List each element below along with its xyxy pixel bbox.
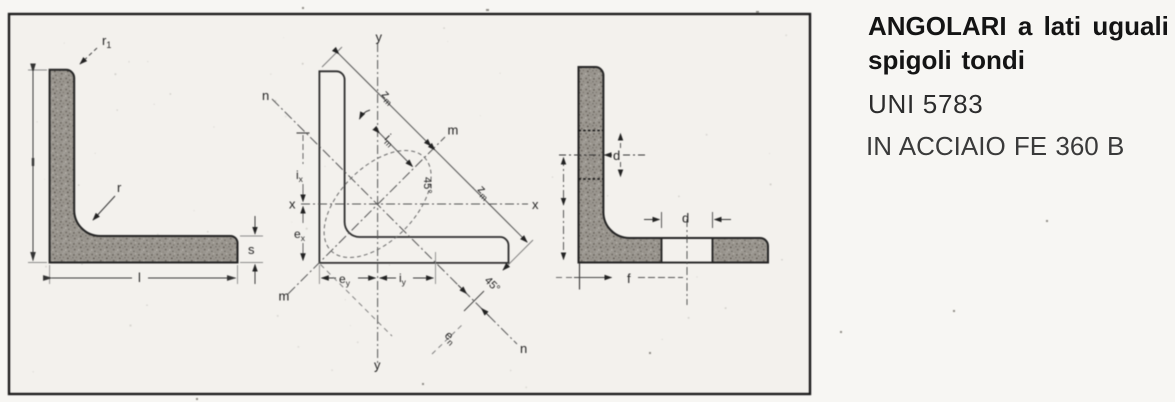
leader r1 [80, 48, 97, 64]
scan speckles [196, 7, 1048, 400]
l dimension extension lines [50, 265, 238, 284]
svg-text:y: y [374, 358, 381, 373]
d dimension (slot) arrows [644, 219, 660, 221]
z_m dimension line [339, 54, 431, 146]
title text block [868, 13, 1169, 39]
e_n tick across n axis [464, 291, 484, 311]
svg-text:r: r [117, 180, 122, 195]
left profile (stippled) [50, 70, 238, 263]
hole centre line [559, 154, 600, 156]
bottom extension ticks [319, 252, 435, 284]
slot extension ticks [662, 212, 713, 228]
axis n [272, 99, 517, 344]
height dimension line [32, 72, 34, 261]
svg-text:f: f [627, 271, 631, 286]
inertia ellipse [305, 131, 451, 277]
svg-text:x: x [289, 197, 296, 212]
paper grain [32, 27, 787, 388]
f dimension line [556, 277, 574, 279]
e_y dimension [322, 277, 336, 279]
z_m extension tick bottom [504, 240, 533, 269]
svg-text:y: y [376, 30, 383, 45]
svg-text:m: m [279, 289, 290, 304]
i_x dimension [297, 132, 310, 134]
s dimension extension lines [240, 236, 263, 263]
svg-text:s: s [248, 242, 255, 257]
hole slot in horizontal leg [663, 239, 712, 262]
svg-text:n: n [520, 341, 527, 356]
axis y [377, 43, 379, 365]
hole d dimension vertical [620, 134, 622, 149]
height dimension extension ticks [28, 70, 47, 263]
z_m extension tick top [322, 47, 342, 67]
gauge dimension (left of right profile) [563, 158, 565, 199]
l dimension line [52, 277, 132, 279]
e_x dimension [302, 207, 304, 224]
axis x [301, 203, 528, 205]
i_m dimension [380, 133, 413, 167]
panel frame [9, 14, 810, 394]
e_n arrows on n axis [458, 285, 467, 294]
hole dashed lines in vertical leg [579, 130, 604, 132]
right profile (stippled) [579, 67, 769, 263]
e_n diagonal through heel [321, 265, 393, 337]
svg-text:m: m [448, 123, 459, 138]
back face extension line [579, 264, 581, 290]
svg-text:d: d [682, 211, 689, 226]
middle profile outline [319, 71, 508, 263]
svg-text:n: n [262, 88, 269, 103]
svg-text:x: x [532, 197, 539, 212]
svg-text:d: d [613, 148, 620, 163]
axis m [288, 137, 445, 294]
e_n leader [432, 324, 463, 354]
svg-text:l: l [138, 270, 141, 285]
i_y dimension [380, 277, 396, 279]
s dimension arrows [254, 216, 256, 234]
small hook arrow [360, 110, 371, 119]
hole centre extension line [686, 219, 688, 305]
svg-text:45°: 45° [421, 177, 433, 194]
leader r [93, 196, 115, 220]
